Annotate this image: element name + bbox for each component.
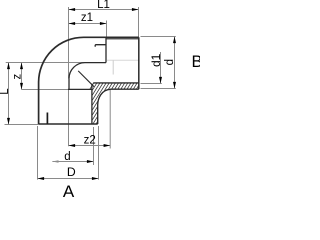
insertion depth tick l: [46, 113, 48, 124]
svg-text:L: L: [0, 88, 11, 95]
extension line mouth plane left (L bottom ref): [5, 124, 39, 126]
bottom socket bore right line: [91, 84, 93, 125]
dimension d1 line: [160, 52, 162, 84]
arrows z2: [69, 144, 76, 147]
arrows L1: [69, 8, 76, 11]
dimension z2 line: [69, 145, 111, 147]
svg-text:z1: z1: [81, 12, 93, 24]
extension line D left: [37, 126, 39, 180]
faint insertion tick right socket: [112, 60, 114, 74]
arrow d1: [159, 77, 162, 84]
arrows d bottom: [52, 160, 58, 162]
right socket bore bottom line: [93, 82, 139, 84]
socket bore top line (merged with top edge): [106, 38, 139, 40]
body bore top step: [95, 45, 106, 47]
extension line bore top plane (z/L top ref): [6, 62, 85, 64]
hatching: right socket lower wall + bottom socket right wall: [55, 74, 195, 135]
bottom socket shoulder: [68, 88, 92, 90]
faint insertion line right socket: [107, 59, 139, 61]
svg-text:A: A: [63, 182, 75, 198]
right socket shoulder: [105, 38, 107, 63]
bell flare outer curve: [98, 89, 111, 124]
svg-text:d: d: [64, 151, 70, 163]
svg-text:z2: z2: [84, 135, 96, 147]
extension line d bottom right: [93, 127, 95, 165]
dimension z1 line: [69, 23, 107, 25]
svg-text:z: z: [11, 74, 23, 80]
right socket outer bottom edge: [111, 88, 139, 90]
arrows z1: [69, 22, 76, 25]
arrows z: [20, 63, 23, 70]
svg-text:L1: L1: [97, 0, 110, 11]
extension line L1 right: [138, 7, 140, 37]
arrows L: [7, 63, 10, 70]
svg-text:d: d: [164, 59, 176, 65]
bottom face: [39, 123, 98, 125]
right end face: [138, 37, 140, 89]
svg-text:d1: d1: [149, 53, 163, 67]
elbow outer contour: left edge, outer arc, top edge: [39, 37, 139, 124]
extension line right (d1 bottom ref): [141, 83, 162, 85]
svg-text:B: B: [192, 53, 201, 71]
arrows d right: [173, 37, 176, 44]
svg-text:D: D: [67, 165, 76, 179]
extension line z1 right: [106, 21, 108, 38]
dimension d bottom line: [52, 161, 93, 163]
extension line z2 right: [109, 90, 111, 149]
extension line right (d bottom ref): [141, 88, 176, 90]
body bore left line: [68, 79, 70, 90]
extension line D right: [98, 126, 100, 180]
dimension d right line: [174, 37, 176, 89]
dimension L line: [8, 63, 10, 125]
dimension D line: [38, 178, 99, 180]
body bore top line: [85, 62, 106, 64]
arrows D: [38, 177, 45, 180]
dimension z line: [21, 63, 23, 90]
extension line left (body bore left plane): [68, 7, 70, 146]
body bore sweep arc: [69, 63, 85, 79]
dimension L1 line: [69, 9, 139, 11]
extension line bottom shoulder (z bottom ref): [22, 89, 68, 91]
bore miter diagonal: [78, 71, 94, 87]
extension line right top (d top ref): [141, 36, 176, 38]
